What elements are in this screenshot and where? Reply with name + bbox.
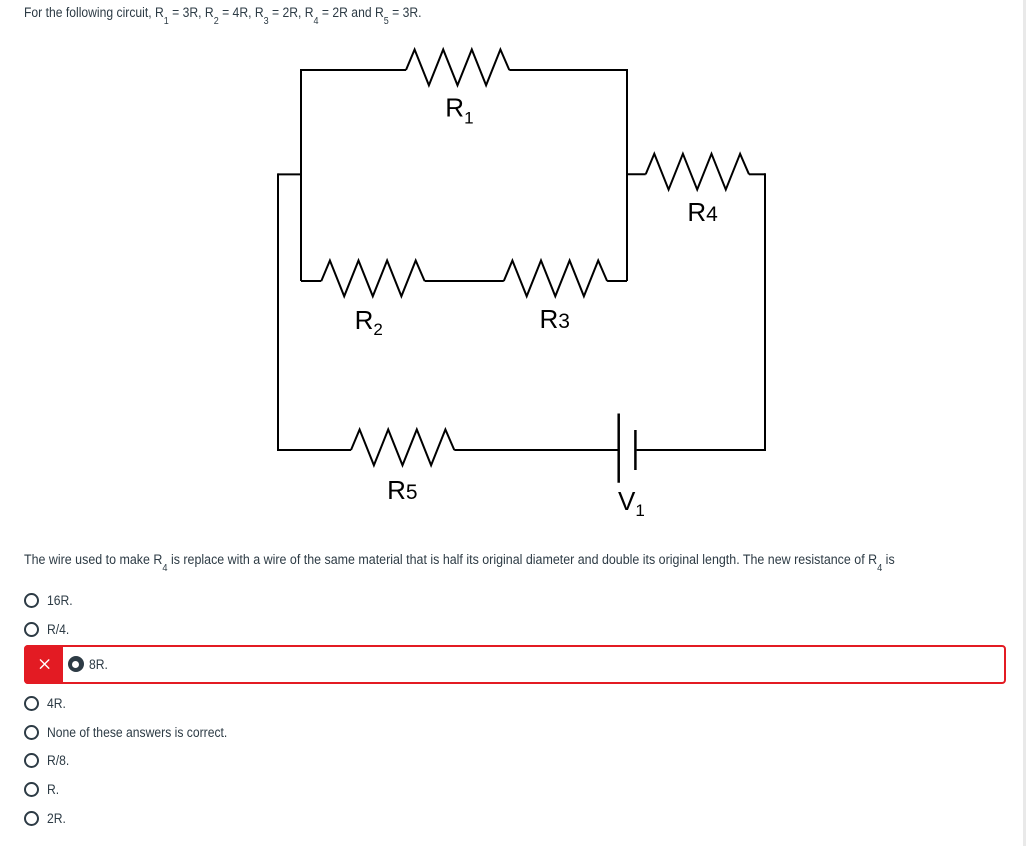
wire middle left stub	[301, 280, 321, 282]
resistor R3	[504, 261, 607, 297]
option 4R	[24, 696, 68, 711]
option 8R	[89, 657, 108, 672]
svg-text:R5: R5	[387, 475, 417, 505]
wire middle center	[425, 280, 504, 282]
svg-text:R1: R1	[445, 92, 473, 127]
wire inner right vertical	[626, 69, 628, 281]
resistor R2	[321, 261, 424, 297]
wire top right	[509, 69, 627, 71]
option None	[24, 725, 247, 740]
resistor R4	[646, 154, 749, 190]
x mark	[40, 659, 48, 667]
svg-text:R3: R3	[540, 304, 570, 334]
wire outer left vertical	[277, 173, 279, 450]
wire R4 branch stub	[627, 173, 646, 175]
resistor R5	[351, 430, 454, 466]
svg-text:R2: R2	[355, 305, 383, 339]
resistor R1	[406, 50, 509, 86]
option R	[24, 782, 60, 797]
wire bottom left	[277, 449, 351, 451]
wire bottom center	[454, 449, 617, 451]
wire R4 to outer right	[749, 173, 765, 175]
option R/4	[24, 622, 71, 637]
wire left jog	[278, 173, 302, 175]
battery V1 positive plate	[617, 414, 620, 483]
wire bottom right	[637, 449, 766, 451]
wire top left	[301, 69, 406, 71]
wire inner left vertical	[300, 69, 302, 281]
svg-text:V1: V1	[618, 486, 645, 520]
svg-text:R4: R4	[687, 197, 718, 227]
option 2R	[24, 811, 68, 826]
selected answer box (incorrect, red)	[24, 645, 1006, 684]
red x block	[24, 645, 63, 684]
wire middle right stub	[607, 280, 627, 282]
scrollbar strip	[1023, 0, 1026, 846]
wire outer right vertical	[764, 173, 766, 450]
selected radio	[68, 656, 84, 672]
battery V1 negative plate	[634, 430, 637, 470]
option R/8	[24, 753, 71, 768]
question text line 1	[24, 5, 422, 20]
question text line 2	[24, 552, 895, 567]
option 16R	[24, 593, 75, 608]
